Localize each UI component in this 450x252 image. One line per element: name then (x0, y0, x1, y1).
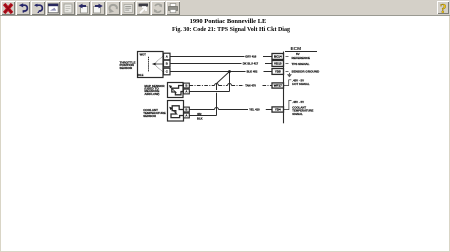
svg-text:IDLE: IDLE (137, 73, 143, 77)
svg-text:YD4: YD4 (275, 108, 281, 112)
svg-text:GRY 416: GRY 416 (245, 55, 256, 59)
svg-text:WOT: WOT (140, 52, 147, 56)
svg-text:TPS SIGNAL: TPS SIGNAL (292, 62, 310, 66)
svg-text:AIRFLOW): AIRFLOW) (144, 92, 159, 96)
svg-text:VD13: VD13 (274, 62, 282, 66)
svg-text:.45V - 5V: .45V - 5V (292, 100, 304, 104)
svg-text:SENSOR: SENSOR (120, 66, 134, 70)
svg-text:REFERENCE: REFERENCE (292, 56, 311, 60)
svg-text:452: 452 (197, 112, 202, 116)
svg-text:SENSOR: SENSOR (143, 114, 157, 118)
svg-text:B: B (185, 108, 187, 112)
svg-text:B: B (166, 62, 168, 66)
svg-text:SIGNAL: SIGNAL (292, 112, 303, 116)
svg-text:BC14: BC14 (274, 55, 282, 59)
svg-text:A: A (166, 55, 169, 59)
svg-text:SENSOR GROUND: SENSOR GROUND (292, 70, 320, 74)
svg-text:YD5: YD5 (275, 70, 281, 74)
svg-text:A: A (185, 90, 188, 94)
svg-text:BLK 452: BLK 452 (247, 70, 258, 74)
svg-text:ECM: ECM (290, 46, 301, 52)
svg-text:C: C (166, 70, 169, 74)
svg-text:HOT SIGNAL: HOT SIGNAL (292, 82, 310, 86)
svg-text:WF17: WF17 (274, 84, 282, 88)
svg-text:BLK: BLK (197, 116, 203, 120)
svg-text:B: B (185, 84, 187, 88)
svg-text:YEL 410: YEL 410 (249, 108, 260, 112)
svg-text:A: A (185, 114, 188, 118)
svg-text:DK BLU 417: DK BLU 417 (243, 62, 259, 66)
svg-text:TAN 470: TAN 470 (245, 84, 256, 88)
